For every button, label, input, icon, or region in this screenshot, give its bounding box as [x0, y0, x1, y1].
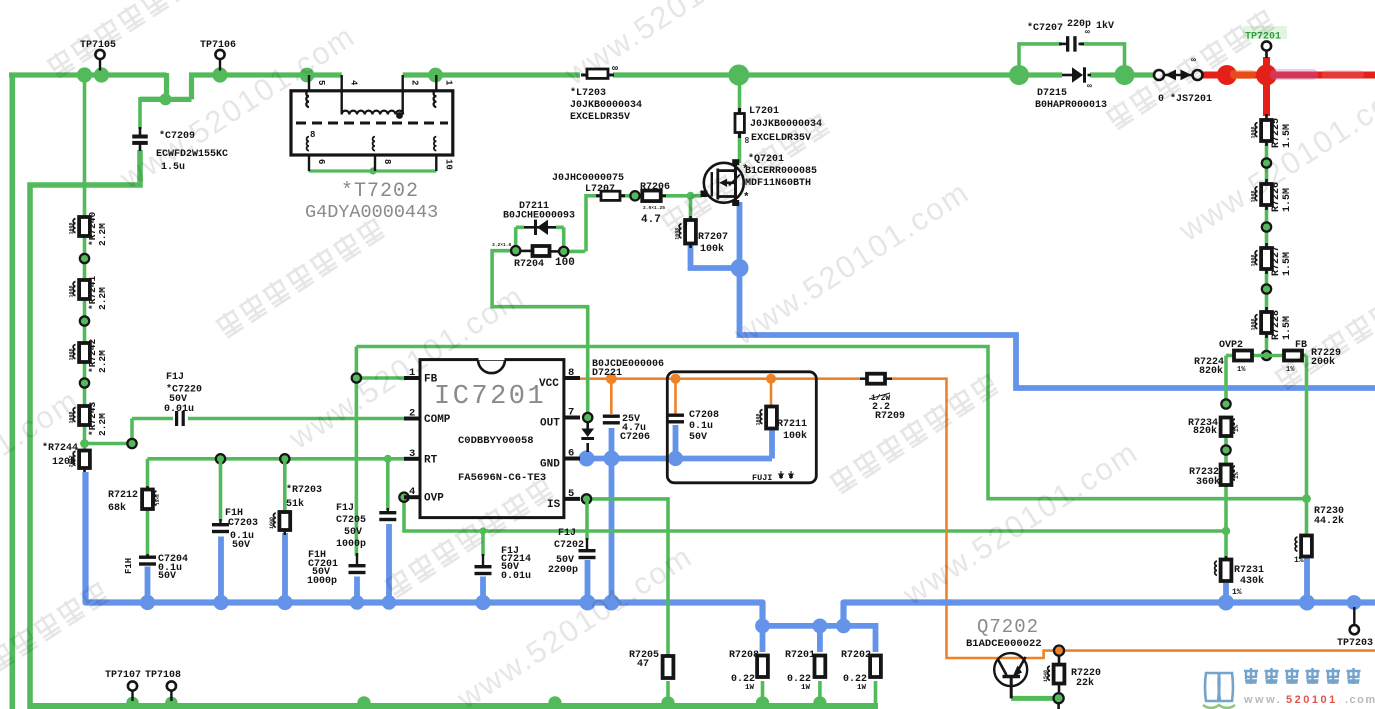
- svg-text:1548: 1548: [1043, 670, 1049, 682]
- svg-text:68k: 68k: [108, 502, 126, 514]
- wire: VCC rail from IC pin8 (orange): [578, 379, 1375, 658]
- svg-text:1608: 1608: [1251, 126, 1257, 138]
- svg-text:R7204: R7204: [514, 259, 544, 270]
- svg-text:∞: ∞: [1087, 82, 1092, 91]
- svg-text:GND: GND: [540, 459, 560, 471]
- svg-text:100: 100: [555, 257, 575, 269]
- junction: gate/R7207 node (green dot): [687, 192, 695, 200]
- svg-text:C7203: C7203: [228, 518, 258, 529]
- svg-text:820k: 820k: [1193, 425, 1217, 437]
- svg-text:OVP: OVP: [424, 493, 444, 505]
- test point TP7107: [105, 670, 141, 701]
- svg-text:1000p: 1000p: [307, 576, 337, 587]
- junction: source sense node (blue dot): [731, 259, 749, 277]
- svg-text:*T7202: *T7202: [341, 180, 419, 203]
- wire: C7205 top lead (green): [386, 459, 390, 510]
- capacitor C7202: [548, 528, 596, 576]
- svg-text:1%: 1%: [1232, 588, 1242, 597]
- wire: top AC bus segment from left edge to transformer pin4 (green): [9, 73, 342, 99]
- wire: C7203 top lead (green): [219, 459, 223, 521]
- svg-text:0.1u: 0.1u: [689, 421, 713, 432]
- svg-text:R7231: R7231: [1234, 565, 1264, 576]
- resistor R7206: [639, 182, 670, 226]
- svg-text:1.5M: 1.5M: [1282, 252, 1293, 276]
- junction: D7215 parallel block right node (green dot): [1115, 65, 1135, 85]
- jumper JS7201: [1154, 56, 1212, 105]
- svg-text:RT: RT: [424, 454, 438, 466]
- junction: VCC/R7211 node (orange dot): [766, 374, 776, 384]
- wire: C7209 top lead from bus jog (green): [138, 97, 142, 129]
- junction: OVP2/FB divider node (ring dot): [1262, 351, 1271, 360]
- svg-text:OUT: OUT: [540, 418, 560, 430]
- wire: top bus segment transformer pin2 to jumper JS7201 (green): [403, 72, 1153, 77]
- svg-text:4: 4: [349, 80, 359, 86]
- svg-text:50V: 50V: [232, 540, 250, 551]
- inductor L7201 ferrite bead vertical: [735, 106, 822, 144]
- svg-text:*R7244: *R7244: [42, 442, 78, 454]
- svg-text:1W: 1W: [745, 684, 755, 692]
- wire: R7205 bottom lead (green): [666, 681, 670, 703]
- svg-text:L7201: L7201: [749, 106, 779, 117]
- wire: C7214 top lead (green): [481, 531, 485, 556]
- svg-text:2.2M: 2.2M: [97, 223, 108, 246]
- junction: red node dot: [1217, 65, 1237, 85]
- junction: VCC/C7208 node (orange dot): [671, 374, 681, 384]
- svg-text:50V: 50V: [158, 571, 176, 582]
- wire: R7231 bottom lead (blue): [1223, 583, 1229, 603]
- wire: R7203 top lead (green): [283, 459, 287, 512]
- capacitor C7208: [667, 381, 719, 443]
- wire: R7230 bottom lead (blue): [1304, 556, 1310, 603]
- diode D7215: [1035, 67, 1107, 111]
- svg-text:∞: ∞: [1085, 28, 1090, 37]
- svg-text:1W: 1W: [857, 684, 867, 692]
- junction: OVP pin4 (ring dot): [399, 493, 408, 502]
- resistor R7207: [675, 216, 729, 255]
- wire: R7224 left lead down through R7234/R7232 chain (green): [1226, 356, 1234, 561]
- svg-text:B0HAPR000013: B0HAPR000013: [1035, 100, 1107, 111]
- transistor Q7202 PNP: [966, 616, 1042, 698]
- wire: C7206 bottom lead (blue): [609, 428, 615, 462]
- wire: top bus junction dots (green): [77, 67, 443, 82]
- wire: OVP2/FB node horizontal stubs (green): [1246, 354, 1287, 358]
- wire: transformer secondary link pins 6-8-10 (green): [309, 169, 437, 172]
- junction: OUT pin7 (ring dot): [583, 413, 592, 422]
- svg-text:www.520101.com: www.520101.com: [450, 538, 699, 709]
- junction: C7209 tap on bus jog (green dot): [160, 93, 172, 105]
- diode D7221 at OUT pin: [581, 359, 664, 452]
- resistor R7243: [69, 401, 109, 436]
- wire: R7207 top lead (green): [689, 196, 693, 219]
- junction: R7224/R7234 node (ring dot): [1221, 399, 1230, 408]
- wire: C7205 bottom lead (blue): [386, 524, 392, 603]
- svg-text:TP7203: TP7203: [1337, 638, 1373, 649]
- svg-text:TP7106: TP7106: [200, 40, 236, 51]
- svg-text:10: 10: [443, 159, 453, 170]
- svg-text:TP7108: TP7108: [145, 670, 181, 681]
- capacitor C7206: [603, 381, 650, 443]
- svg-text:2: 2: [410, 80, 420, 85]
- net label OVP2: [1219, 340, 1243, 351]
- svg-text:C7205: C7205: [336, 515, 366, 526]
- svg-text:520101: 520101: [1286, 694, 1338, 706]
- svg-text:∞: ∞: [740, 137, 751, 143]
- resistor R7227: [1251, 243, 1294, 276]
- svg-text:100k: 100k: [700, 243, 724, 255]
- resistor R7201: [785, 650, 825, 692]
- resistor R7225: [1251, 114, 1294, 148]
- svg-text:22k: 22k: [1076, 677, 1094, 689]
- svg-text:.com: .com: [1345, 694, 1375, 706]
- svg-text:2.0×1.25: 2.0×1.25: [643, 205, 665, 211]
- junction: D7215 parallel block left node (green dot): [1009, 65, 1029, 85]
- svg-text:IC7201: IC7201: [434, 382, 546, 412]
- svg-text:1%: 1%: [1233, 471, 1240, 479]
- svg-text:B1ADCE000022: B1ADCE000022: [966, 638, 1042, 650]
- svg-text:6: 6: [316, 159, 326, 164]
- resistor R7203: [269, 484, 322, 535]
- svg-text:Q7202: Q7202: [977, 616, 1039, 638]
- junction: spare taps on bottom bus (green dots): [126, 696, 561, 709]
- svg-text:IS: IS: [547, 499, 561, 511]
- inductor L7207 ferrite bead: [552, 173, 625, 200]
- junction: IS pin5 (ring dot): [582, 494, 591, 503]
- decorative watermark smudge over red bus: [1230, 69, 1364, 80]
- wire: C7203 bottom lead (blue): [218, 537, 224, 603]
- svg-text:*C7207: *C7207: [1027, 22, 1063, 34]
- resistor R7208: [729, 650, 768, 692]
- svg-text:R7227: R7227: [1271, 246, 1282, 276]
- test point TP7105: [80, 40, 116, 71]
- svg-text:8: 8: [310, 130, 315, 140]
- svg-text:1608: 1608: [69, 285, 75, 297]
- wire: C7204 bottom lead (blue): [145, 567, 151, 603]
- capacitor C7220 on COMP line: [164, 372, 202, 426]
- svg-text:1: 1: [443, 80, 453, 86]
- svg-text:1608: 1608: [1251, 318, 1257, 330]
- capacitor C7201: [307, 550, 366, 587]
- wire: C7214 bottom lead (blue): [480, 577, 486, 603]
- svg-text:3: 3: [409, 448, 415, 460]
- capacitor C7205: [336, 503, 396, 550]
- svg-text:COMP: COMP: [424, 414, 451, 426]
- wire: TP7201 stub and divider feed (red): [1263, 57, 1270, 116]
- resistor R7220: [1043, 656, 1101, 709]
- svg-text:TP7107: TP7107: [105, 670, 141, 681]
- svg-text:2: 2: [409, 408, 415, 420]
- resistor R7202: [841, 650, 881, 692]
- capacitor C7207 with labels: [1027, 19, 1114, 52]
- wire: gate drive network around L7207/R7206/R7204/D7211 (green): [492, 194, 702, 413]
- resistor R7211: [756, 381, 808, 442]
- svg-text:C0DBBYY00058: C0DBBYY00058: [458, 435, 534, 447]
- net label FB: [1295, 340, 1307, 351]
- wire: main ground bus (blue): [86, 472, 1375, 626]
- svg-text:1.5M: 1.5M: [1282, 316, 1293, 340]
- resistor R7212: [108, 486, 161, 514]
- svg-text:*R7203: *R7203: [286, 484, 322, 496]
- wire: C7202 top lead from pin5 (green): [585, 499, 589, 540]
- svg-text:R7202: R7202: [841, 650, 871, 661]
- svg-text:8: 8: [568, 367, 574, 379]
- svg-text:1608: 1608: [756, 413, 762, 425]
- svg-text:www.: www.: [1243, 694, 1282, 706]
- junction dots on GND pin6 bus (blue): [579, 451, 684, 467]
- svg-text:1%: 1%: [1294, 556, 1304, 565]
- wire: L7201 drain vertical (green): [738, 77, 742, 163]
- wire: R7240 divider chain verticals (green): [83, 75, 87, 451]
- svg-text:430k: 430k: [1240, 575, 1264, 587]
- wire: R7212 lower lead to C7204 (green): [146, 509, 150, 556]
- svg-text:1.5M: 1.5M: [1282, 188, 1293, 212]
- junction: FB node at IC pin1 (ring dot): [352, 373, 361, 382]
- svg-text:44.2k: 44.2k: [1314, 515, 1344, 527]
- svg-text:1608: 1608: [69, 348, 75, 360]
- svg-text:R7228: R7228: [1271, 310, 1282, 340]
- svg-text:47: 47: [637, 659, 649, 670]
- svg-text:1608: 1608: [1251, 254, 1257, 266]
- wire: C7201 bottom lead (blue): [354, 577, 360, 603]
- decorative site logo: [1203, 668, 1375, 708]
- svg-text:15×8: 15×8: [155, 494, 161, 505]
- wire: R7207 bottom to source node (blue): [691, 244, 737, 269]
- svg-text:www.520101.com: www.520101.com: [896, 434, 1145, 612]
- svg-text:R7207: R7207: [698, 232, 728, 243]
- test point TP7201: [1243, 26, 1287, 58]
- wire: Q7201 source to right-side sense bus (blue): [740, 202, 1375, 388]
- junction: VCC/C7206 node (orange dot): [606, 373, 617, 384]
- junction: L7207/R7206 node (green dot): [630, 191, 639, 200]
- svg-text:360k: 360k: [1196, 476, 1220, 488]
- resistor R7242: [69, 338, 109, 373]
- svg-text:F1J: F1J: [558, 528, 576, 539]
- svg-text:R7201: R7201: [785, 650, 815, 661]
- svg-text:1608: 1608: [69, 222, 75, 234]
- svg-text:F1J: F1J: [336, 503, 354, 514]
- svg-text:4: 4: [409, 486, 415, 498]
- svg-text:100k: 100k: [783, 430, 807, 442]
- junction: R7220 bottom node (green ring dot): [1054, 693, 1064, 703]
- svg-text:4.7: 4.7: [641, 214, 661, 226]
- svg-text:1608: 1608: [269, 517, 275, 529]
- capacitor C7214: [475, 546, 532, 582]
- svg-text:C7206: C7206: [620, 432, 650, 443]
- svg-text:3.2×1.6: 3.2×1.6: [492, 242, 512, 248]
- svg-text:R7211: R7211: [777, 419, 807, 430]
- svg-text:C7202: C7202: [554, 540, 584, 551]
- svg-text:51k: 51k: [286, 498, 304, 510]
- wire: C7207 snubber top branch (green): [1019, 44, 1125, 75]
- junction: Q7201 drain node on top bus (big green dot): [728, 65, 749, 86]
- junction: transformer bottom pin 8 (green dot): [369, 167, 376, 174]
- wire: COMP net - IC pin2 through C7220 to divider (green): [85, 419, 405, 444]
- svg-text:0.01u: 0.01u: [501, 571, 531, 582]
- junction: R7234/R7232 node (ring dot): [1221, 445, 1230, 454]
- junction: divider tap to COMP (green dot): [80, 439, 89, 448]
- resistor R7228: [1251, 307, 1294, 340]
- resistor R7229: [1284, 348, 1341, 374]
- svg-text:www.520101.com: www.520101.com: [558, 0, 807, 92]
- wire: ground bus overpass at orange crossing (blue): [940, 599, 953, 605]
- wire: shunt resistor top leads (blue): [763, 626, 876, 652]
- transformer T7202: [291, 75, 453, 223]
- test point TP7108: [145, 670, 181, 701]
- resistor R7209: [860, 374, 905, 422]
- junction dots between divider resistors (green): [80, 254, 89, 388]
- svg-text:D7221: D7221: [592, 368, 622, 379]
- svg-text:2.2M: 2.2M: [97, 350, 108, 373]
- svg-text:1%: 1%: [1233, 424, 1240, 432]
- svg-text:C7208: C7208: [689, 410, 719, 421]
- svg-text:R7206: R7206: [640, 182, 670, 193]
- test point TP7203: [1337, 607, 1373, 649]
- junction: R7220 top node (orange ring dot): [1054, 646, 1064, 656]
- svg-text:1%: 1%: [1237, 366, 1246, 374]
- wire: rectified HV output bus (red): [1199, 72, 1375, 79]
- resistor R7244: [42, 442, 90, 472]
- junction: shunt bottoms on bus (green dots): [756, 696, 827, 709]
- svg-text:1kV: 1kV: [1096, 20, 1114, 32]
- resistor R7204: [492, 242, 575, 270]
- resistor R7232: [1189, 465, 1240, 489]
- junction: COMP corner node (ring dot): [127, 439, 136, 448]
- svg-text:F1H: F1H: [124, 558, 134, 574]
- svg-text:R7209: R7209: [875, 411, 905, 422]
- junction: OVP/C7214 tap (green dot): [479, 527, 486, 534]
- svg-text:1000p: 1000p: [336, 539, 366, 550]
- wire: left outer vertical from top bus to bottom edge (green): [10, 73, 16, 709]
- inductor L7203 ferrite bead on bus: [570, 64, 642, 123]
- wire: bottom ground bus (green): [27, 703, 878, 709]
- resistor R7224: [1194, 351, 1252, 378]
- junction: FB line meets R7230 chain (green dot): [1302, 494, 1311, 503]
- wire: IC GND pin6 bus (blue): [580, 425, 772, 603]
- resistor R7241: [69, 275, 109, 310]
- junction: RT/R7203 node (ring dot): [280, 454, 289, 463]
- diode D7211: [503, 201, 575, 235]
- svg-text:50V: 50V: [689, 432, 707, 443]
- svg-text:5: 5: [316, 80, 326, 85]
- wire: FB net - IC pin1 to long feedback line (green): [356, 347, 1305, 557]
- svg-text:L7207: L7207: [585, 184, 615, 195]
- svg-text:J0JHC0000075: J0JHC0000075: [552, 173, 624, 184]
- capacitor C7209: [132, 127, 228, 173]
- wire: IS net - IC pin5 to R7205 (green): [587, 499, 669, 656]
- svg-text:FUJI: FUJI: [752, 473, 772, 483]
- svg-text:F1J: F1J: [166, 372, 184, 383]
- svg-text:820k: 820k: [1199, 365, 1223, 377]
- svg-text:R7208: R7208: [729, 650, 759, 661]
- wire: C7209 lower branch and second vertical to bottom ground bus (green): [30, 150, 140, 703]
- svg-text:0.01u: 0.01u: [164, 404, 194, 415]
- svg-text:8: 8: [382, 159, 392, 164]
- svg-text:6: 6: [568, 448, 574, 460]
- junction: R7205 on bottom bus (green dot): [661, 696, 674, 709]
- svg-text:EXCELDR35V: EXCELDR35V: [570, 112, 630, 123]
- svg-text:7: 7: [568, 407, 574, 419]
- wire: R7229 right lead down to FB line and R7230 (green): [1299, 356, 1307, 537]
- wire: R7203 bottom lead (blue): [282, 533, 288, 603]
- wire: Q7202 emitter to R7220 bottom node (green): [1011, 696, 1055, 701]
- svg-text:*: *: [743, 192, 750, 204]
- svg-text:J0JKB0000034: J0JKB0000034: [570, 100, 642, 111]
- resistor R7240: [69, 211, 109, 246]
- svg-text:1W: 1W: [801, 684, 811, 692]
- wire: shunt resistor bottom leads (green): [763, 681, 876, 706]
- resistor R7230: [1294, 506, 1344, 565]
- junction dots on shunt detour (blue): [755, 619, 851, 634]
- test point TP7106: [200, 40, 236, 71]
- svg-text:120k: 120k: [52, 456, 76, 468]
- MOSFET Q7201: [701, 153, 818, 206]
- junction: red cross junction at TP7201: [1256, 65, 1277, 86]
- svg-text:2.2M: 2.2M: [97, 413, 108, 436]
- junction: OVP line to chain (green dot): [1222, 527, 1230, 535]
- junction dots in HV divider chain (ring dots): [1262, 158, 1271, 293]
- svg-text:B0JCHE000093: B0JCHE000093: [503, 211, 575, 222]
- junction: R7204 right node (green dot): [559, 247, 568, 256]
- capacitor C7203: [212, 508, 258, 551]
- wire: OVP net - IC pin4 down and right to R7234/R7232 node (green): [404, 497, 1226, 531]
- resistor R7231: [1215, 556, 1264, 597]
- svg-text:www.520101.com: www.520101.com: [727, 174, 976, 352]
- FUJI module box: [667, 372, 816, 483]
- svg-text:R7212: R7212: [108, 490, 138, 501]
- wire: RT net - IC pin3 line (green): [148, 459, 405, 490]
- svg-text:D7215: D7215: [1037, 88, 1067, 99]
- wire: C7202 bottom lead (blue): [585, 560, 591, 603]
- junction: RT/C7205 node (green dot): [384, 455, 392, 463]
- wire: OUT net overpass at orange crossing (green): [586, 372, 590, 386]
- resistor R7226: [1251, 179, 1294, 212]
- junction dots on ground bus (blue): [140, 595, 1362, 611]
- resistor R7205: [629, 650, 673, 678]
- svg-text:R7225: R7225: [1271, 118, 1282, 148]
- resistor R7234: [1188, 418, 1240, 438]
- capacitor C7204: [124, 554, 188, 582]
- wire: right HV divider chain leads (green): [1265, 141, 1269, 355]
- svg-text:2.2M: 2.2M: [97, 287, 108, 310]
- svg-text:2200p: 2200p: [548, 565, 578, 576]
- svg-text:50V: 50V: [344, 527, 362, 538]
- svg-text:5: 5: [568, 488, 574, 500]
- svg-text:TP7201: TP7201: [1245, 32, 1281, 43]
- junction: RT/C7203 node (ring dot): [216, 454, 225, 463]
- IC7201 PWM controller: [404, 358, 580, 517]
- junction: R7204 left node (green dot): [511, 246, 520, 255]
